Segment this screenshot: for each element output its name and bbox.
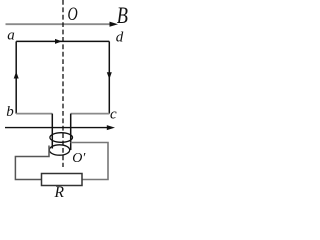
svg-text:d: d — [116, 29, 124, 45]
current arrow on right edge (down) — [107, 72, 112, 79]
svg-text:O: O — [68, 5, 78, 25]
coil turn 2 — [49, 145, 69, 155]
loop bottom edge right segment c side — [71, 113, 110, 115]
svg-text:c: c — [110, 106, 117, 122]
field line 2 (lower) — [5, 125, 115, 130]
left lead wire from coil to resistor — [15, 146, 49, 180]
loop bottom edge left segment b side — [16, 113, 52, 115]
loop top edge a-d — [16, 40, 109, 42]
resistor R box — [42, 174, 83, 186]
svg-text:R: R — [54, 184, 65, 201]
field line B top — [6, 22, 119, 27]
dashed axis O-O' — [62, 0, 64, 167]
loop left edge a-b — [15, 41, 17, 113]
svg-text:B: B — [117, 3, 128, 28]
current arrow on left edge (up) — [14, 72, 19, 79]
loop right edge d-c — [108, 41, 110, 113]
left stem wire from loop to coil — [51, 114, 53, 149]
svg-text:O′: O′ — [72, 151, 86, 166]
svg-text:a: a — [7, 28, 15, 44]
right lead wire from coil to resistor — [71, 143, 109, 180]
svg-text:b: b — [6, 104, 14, 120]
coil turn 1 — [50, 133, 73, 143]
current arrow on top edge — [55, 39, 62, 44]
right stem wire from loop to coil — [70, 114, 72, 150]
